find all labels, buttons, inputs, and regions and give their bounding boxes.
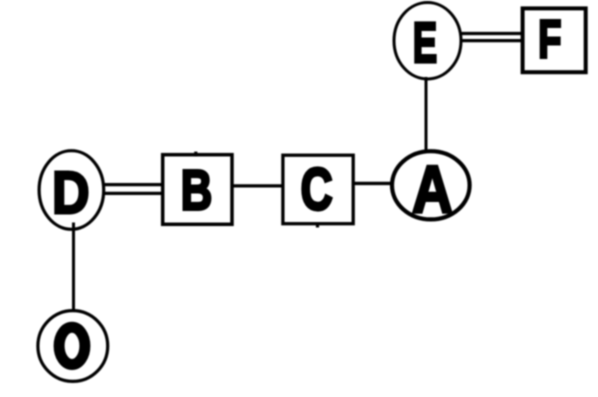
tick below node C [316, 223, 319, 228]
svg-text:A: A [412, 153, 453, 227]
node E (circle) [394, 3, 461, 80]
node C (square) [283, 155, 353, 224]
node A (circle) [392, 151, 470, 219]
label O (heavy ring glyph) [59, 327, 85, 364]
svg-text:B: B [181, 158, 213, 222]
label D [52, 160, 89, 226]
svg-text:F: F [538, 9, 561, 69]
node B (square) [163, 155, 232, 225]
wire E-F (double line, bottom) [459, 39, 523, 42]
label E [413, 12, 437, 75]
tick at bottom of node D [72, 223, 75, 233]
svg-text:C: C [301, 158, 333, 224]
node F (square) [523, 8, 586, 72]
wire D-B (double line, top) [100, 183, 163, 186]
node D (circle) [39, 151, 104, 230]
tick above node B [194, 152, 197, 157]
wire E-A (vertical) [425, 77, 428, 152]
svg-text:E: E [413, 12, 437, 75]
label F [538, 9, 561, 69]
wire D-O (vertical) [72, 223, 75, 312]
svg-text:D: D [52, 160, 89, 226]
label C [301, 158, 333, 224]
wire B-C [231, 184, 284, 187]
label B [181, 158, 213, 222]
node O (circle) [38, 311, 108, 382]
wire E-F (double line, top) [459, 32, 523, 35]
wire C-A [352, 182, 393, 185]
wire D-B (double line, bottom) [100, 192, 163, 195]
label A [412, 153, 453, 227]
tick at bottom of node E [425, 77, 428, 85]
